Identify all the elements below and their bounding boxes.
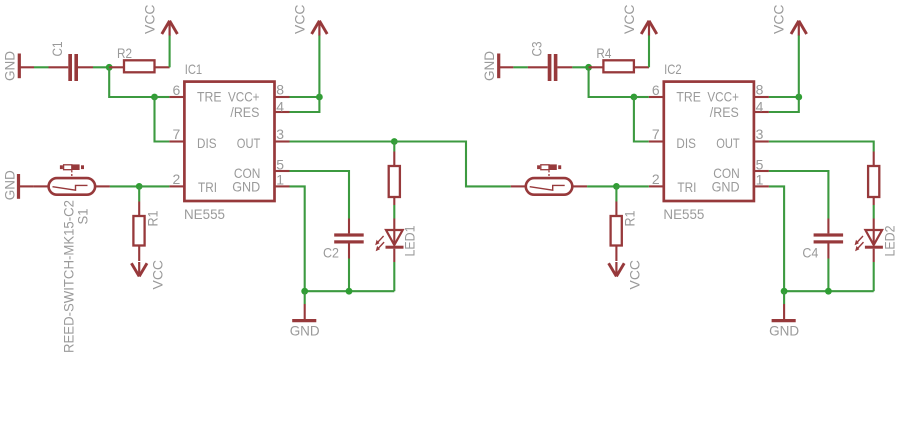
svg-text:7: 7 (652, 126, 660, 142)
wire (648, 35, 650, 67)
wire (pin8 to VCC node) (769, 96, 799, 98)
capacitor C1 (49, 41, 94, 81)
supply VCC (arrow up, right) (621, 5, 657, 36)
svg-text:VCC: VCC (621, 5, 637, 35)
wire (139, 185, 169, 187)
resistor R1 (133, 202, 160, 262)
wire (pin1 GND path right) (769, 186, 784, 291)
svg-text:IC1: IC1 (185, 61, 203, 77)
led LED1 (375, 219, 417, 263)
wire (393, 205, 395, 219)
capacitor C3 (528, 41, 573, 81)
junction (825, 288, 832, 295)
wire (OUT to right reed) (394, 142, 511, 187)
svg-text:VCC: VCC (142, 5, 158, 35)
svg-text:/RES: /RES (230, 104, 259, 120)
svg-text:TRI: TRI (198, 179, 217, 195)
wire (to GND) (304, 291, 306, 304)
pin 1 GND (232, 171, 289, 194)
svg-text:TRI: TRI (677, 179, 696, 195)
svg-text:DIS: DIS (676, 135, 696, 151)
junction (391, 138, 398, 145)
svg-text:LED1: LED1 (402, 225, 418, 256)
ground symbol (top right) (481, 51, 514, 81)
svg-text:S1: S1 (75, 208, 91, 224)
wire (513, 66, 528, 68)
svg-text:3: 3 (276, 126, 284, 142)
supply VCC (arrow down, right) (609, 260, 643, 290)
wire (pin5 CON to C4) (769, 171, 829, 219)
wire (down to R1) (138, 186, 140, 201)
ground symbol (reed, left) (2, 170, 34, 200)
svg-text:VCC: VCC (291, 5, 307, 35)
svg-text:GND: GND (232, 179, 260, 195)
wire (pin5 CON to C2) (290, 171, 350, 219)
svg-text:8: 8 (756, 82, 764, 98)
wire (110, 185, 139, 187)
pin 2 TRI (649, 171, 697, 195)
capacitor C2 (323, 219, 364, 261)
svg-text:R1: R1 (622, 210, 638, 226)
svg-text:OUT: OUT (237, 135, 261, 151)
supply VCC (arrow down, left) (131, 260, 165, 290)
pin 5 CON (713, 156, 769, 181)
svg-text:3: 3 (756, 126, 764, 142)
junction (106, 64, 113, 71)
wire (pin4 up to node) (769, 97, 799, 112)
wire (LED down to bottom rail) (393, 262, 395, 291)
capacitor C4 (802, 219, 843, 261)
wire (169, 35, 171, 67)
svg-text:LED2: LED2 (882, 225, 898, 256)
pin 4 /RES (230, 99, 289, 120)
pin 4 /RES (710, 99, 769, 120)
svg-text:R1: R1 (145, 210, 161, 226)
wire (bottom rail right) (784, 290, 874, 292)
svg-text:TRE: TRE (197, 89, 222, 105)
wire (155, 96, 170, 98)
svg-text:VCC: VCC (627, 260, 643, 290)
wire (634, 96, 649, 98)
wire (pin3 OUT) (290, 140, 395, 142)
svg-text:6: 6 (652, 82, 660, 98)
svg-text:C4: C4 (802, 245, 818, 261)
wire (587, 185, 616, 187)
wire (155, 97, 170, 142)
svg-text:4: 4 (756, 99, 764, 115)
pin 8 VCC+ (707, 82, 769, 105)
svg-text:C2: C2 (323, 245, 339, 261)
svg-text:TRE: TRE (676, 89, 701, 105)
pin 7 DIS (649, 126, 696, 151)
junction (301, 288, 308, 295)
wire (to LED branch) (393, 142, 395, 152)
pin 5 CON (234, 156, 290, 181)
svg-text:GND: GND (2, 51, 18, 81)
wire (589, 67, 634, 97)
supply VCC (arrow up, 2nd right) (771, 5, 807, 36)
pin 3 OUT (237, 126, 290, 151)
svg-text:VCC+: VCC+ (707, 89, 739, 105)
svg-text:VCC: VCC (771, 5, 787, 35)
wire (pin4 up to node) (290, 97, 320, 112)
svg-text:2: 2 (173, 171, 181, 187)
wire (C2 down) (348, 259, 350, 292)
reed switch (right) (511, 164, 587, 194)
wire (109, 67, 154, 97)
svg-text:OUT: OUT (716, 135, 740, 151)
svg-text:1: 1 (276, 171, 284, 187)
wire (node up to VCC) (318, 35, 320, 97)
svg-text:IC2: IC2 (664, 61, 682, 77)
svg-text:1: 1 (756, 171, 764, 187)
junction (781, 288, 788, 295)
resistor (LED1 series) (389, 152, 400, 206)
pin 8 VCC+ (228, 82, 290, 105)
op IC1 NE555 box (184, 61, 275, 222)
resistor R2 (109, 45, 169, 72)
pin 3 OUT (716, 126, 769, 151)
svg-text:7: 7 (173, 126, 181, 142)
svg-text:NE555: NE555 (184, 206, 225, 222)
svg-text:VCC: VCC (150, 260, 166, 290)
wire (pin8 to VCC node) (290, 96, 320, 98)
svg-text:DIS: DIS (197, 135, 217, 151)
wire (node up to VCC) (798, 35, 800, 97)
pin 1 GND (712, 171, 769, 194)
wire (34, 66, 49, 68)
svg-text:8: 8 (276, 82, 284, 98)
svg-text:2: 2 (652, 171, 660, 187)
wire (634, 97, 649, 142)
wire (LED2 down to bottom rail) (873, 262, 875, 291)
svg-text:VCC+: VCC+ (228, 89, 260, 105)
resistor R4 (589, 45, 649, 72)
svg-text:R4: R4 (596, 45, 611, 61)
op IC2 NE555 box (663, 61, 753, 222)
svg-text:GND: GND (481, 51, 497, 81)
reed switch S1 (34, 164, 110, 353)
wire (pin3 OUT right, to LED2 branch) (769, 142, 874, 152)
junction (316, 94, 323, 101)
wire (bottom rail) (305, 290, 395, 292)
pin 7 DIS (169, 126, 216, 151)
svg-text:NE555: NE555 (663, 206, 704, 222)
pin 6 TRE (169, 82, 221, 105)
wire (pin1 GND path) (290, 186, 305, 291)
svg-text:C3: C3 (528, 41, 544, 56)
pin 6 TRE (649, 82, 701, 105)
junction (795, 94, 802, 101)
ground symbol (top left, rotated) (2, 51, 35, 81)
junction (136, 183, 143, 190)
wire (93, 66, 109, 68)
svg-text:4: 4 (276, 99, 284, 115)
svg-text:C1: C1 (49, 41, 65, 56)
junction (pin 6 node right) (631, 94, 638, 101)
wire (down to R1 right) (615, 186, 617, 201)
junction (585, 64, 592, 71)
resistor R1 (right) (611, 202, 638, 262)
svg-text:GND: GND (769, 323, 799, 339)
svg-text:GND: GND (712, 179, 740, 195)
wire (C4 down) (827, 259, 829, 292)
svg-text:5: 5 (276, 156, 284, 172)
wire (572, 66, 588, 68)
svg-text:R2: R2 (117, 45, 132, 61)
junction (pin 6 node) (151, 94, 158, 101)
svg-text:5: 5 (756, 156, 764, 172)
svg-text:GND: GND (290, 323, 320, 339)
resistor (LED2 series) (868, 152, 879, 206)
ground symbol (bottom right) (769, 304, 799, 339)
supply VCC (arrow up, 2nd left) (291, 5, 327, 36)
svg-text:GND: GND (2, 170, 18, 200)
wire (to GND right) (783, 291, 785, 304)
led LED2 (855, 219, 898, 263)
svg-text:/RES: /RES (710, 104, 739, 120)
junction (346, 288, 353, 295)
wire (616, 185, 648, 187)
svg-text:6: 6 (173, 82, 181, 98)
junction (613, 183, 620, 190)
supply VCC (arrow up, left) (142, 5, 178, 36)
pin 2 TRI (169, 171, 217, 195)
wire (873, 205, 875, 219)
ground symbol (bottom left) (290, 304, 320, 339)
